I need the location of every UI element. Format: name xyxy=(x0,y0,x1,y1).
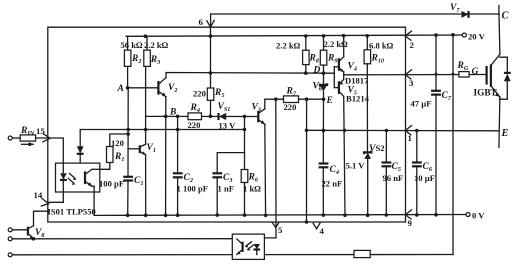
svg-text:E: E xyxy=(326,96,333,106)
pin 5 arrow xyxy=(272,222,279,227)
wire LED cathode to pin14 xyxy=(48,201,64,203)
junction V8 emitter xyxy=(32,237,36,241)
svg-text:1 100 pF: 1 100 pF xyxy=(177,184,209,194)
wire C3 R6 tap xyxy=(217,116,244,173)
junction C5 top xyxy=(385,129,389,133)
capacitor C7 xyxy=(431,35,441,215)
transistor V8 xyxy=(28,226,34,239)
junction C2 top on B line xyxy=(176,115,180,119)
wire L2 top edge of block xyxy=(48,27,406,222)
svg-text:2.2 kΩ: 2.2 kΩ xyxy=(144,40,169,50)
resistor R4 xyxy=(188,113,202,120)
junction aux rail pin3 xyxy=(452,73,455,76)
current arrow under RIN xyxy=(22,142,35,146)
wire V4 collector to 20V rail xyxy=(343,36,345,57)
wire A rail below C1 xyxy=(127,181,129,215)
svg-text:13 V: 13 V xyxy=(219,120,237,130)
junction R10 top xyxy=(366,34,370,38)
svg-text:1: 1 xyxy=(408,133,412,143)
terminal 0 V xyxy=(466,211,485,221)
wire B line from R3 to V3 base xyxy=(146,115,258,117)
junction C4 on 0V bus xyxy=(322,213,326,217)
optocoupler light arrows xyxy=(68,174,76,185)
junction C7 on 0V bus xyxy=(434,213,438,217)
svg-text:120: 120 xyxy=(111,138,124,148)
wire base tap for V4 V5 xyxy=(334,67,338,88)
junction V1 rail on y129 line xyxy=(144,128,148,132)
wire 0V bus xyxy=(94,214,466,217)
svg-text:10 µF: 10 µF xyxy=(414,173,435,183)
junction C3 on 0V bus xyxy=(215,213,219,217)
input terminal circle xyxy=(8,136,12,140)
feedback optocoupler box xyxy=(232,234,264,259)
transistor V1 xyxy=(140,144,146,155)
capacitor C3 xyxy=(212,173,222,215)
wire V1 collector up xyxy=(145,116,147,144)
wire A rail down xyxy=(127,88,129,176)
pin 15 arrow xyxy=(43,134,50,142)
optocoupler phototransistor xyxy=(85,169,100,215)
resistor RIN xyxy=(20,135,35,141)
svg-text:C: C xyxy=(502,11,510,22)
feedback LED xyxy=(254,244,261,255)
wire line2 xyxy=(12,238,236,240)
svg-text:220: 220 xyxy=(193,89,206,99)
pin 1 arrow xyxy=(405,126,411,135)
capacitor C5 xyxy=(382,131,392,216)
svg-text:IGBT: IGBT xyxy=(474,89,498,99)
junction C2 on 0V bus xyxy=(176,213,180,217)
resistor R1 xyxy=(107,134,129,163)
pin 3 arrow xyxy=(405,70,411,79)
zener VS2 xyxy=(364,151,371,216)
junction C6 on 0V bus xyxy=(415,213,419,217)
wire input xyxy=(12,137,20,139)
wire V2 emitter down to 0V bus xyxy=(165,97,167,216)
wire 20V rail L3 xyxy=(126,35,464,36)
junction aux rail top xyxy=(451,33,455,37)
junction R8 bottom on bus xyxy=(304,71,308,75)
junction C2 rail on y129 line xyxy=(176,128,180,132)
wire V3 collector up to E line xyxy=(265,99,325,109)
feedback light arrows xyxy=(245,242,254,251)
wire emitters junction xyxy=(343,72,345,79)
svg-text:D: D xyxy=(313,66,321,76)
junction E rail tap xyxy=(274,97,278,101)
svg-text:47 µF: 47 µF xyxy=(411,99,432,109)
pin 4 arrow xyxy=(313,223,320,229)
wire V3 emitter down to 0V bus xyxy=(264,124,267,215)
svg-text:14: 14 xyxy=(34,190,43,200)
terminal circle1 xyxy=(8,228,12,232)
junction C1 on 0V bus xyxy=(126,214,130,218)
terminal circle3 xyxy=(8,253,12,257)
wire IGBT collector up xyxy=(498,14,501,54)
junction C4 rail on pin1 line xyxy=(322,129,326,133)
junction A rail on y129 line xyxy=(126,128,130,132)
capacitor C1 xyxy=(123,177,133,181)
junction V4 collector top xyxy=(342,34,346,38)
svg-text:220: 220 xyxy=(284,102,297,112)
svg-text:S2: S2 xyxy=(376,143,385,153)
svg-text:3: 3 xyxy=(409,78,414,88)
junction R1 top on A rail xyxy=(126,132,130,136)
wire aux 20V rail right xyxy=(452,35,454,255)
resistor R2 xyxy=(124,36,130,88)
wire line at y129 from diode corner to C3 tap xyxy=(80,129,244,131)
junction R9 top xyxy=(322,34,326,38)
pin 2 arrow xyxy=(405,31,411,40)
wire V5 collector down to 0V bus xyxy=(344,96,345,215)
wire pin1 line horizontal xyxy=(307,129,499,132)
svg-text:96 nF: 96 nF xyxy=(383,173,404,183)
wire line3 xyxy=(12,254,453,256)
svg-text:1 kΩ: 1 kΩ xyxy=(243,184,261,194)
pin 14 arrow xyxy=(41,199,48,207)
junction V2 emitter on 0V bus xyxy=(164,214,168,218)
wire pin6 rail xyxy=(210,27,212,88)
svg-text:6: 6 xyxy=(199,17,204,27)
junction R8 top xyxy=(304,34,308,38)
wire V2 collector to bus xyxy=(166,73,334,78)
capacitor C6 xyxy=(412,131,422,215)
wire V1 base xyxy=(128,148,140,150)
protection diode above optocoupler xyxy=(77,130,84,164)
junction VS2 on 0V bus xyxy=(366,213,370,217)
svg-text:220: 220 xyxy=(188,120,201,130)
feedback phototransistor xyxy=(237,239,243,255)
wire V1 emitter down xyxy=(145,155,147,216)
junction pin1 rail tap xyxy=(305,97,309,101)
svg-text:E: E xyxy=(501,128,509,139)
junction pin6 rail on L3 xyxy=(209,34,213,38)
wire phototransistor collector to R1 xyxy=(100,163,110,170)
junction C6 top xyxy=(415,129,419,133)
junction y129 line end at C3 tap xyxy=(243,128,247,132)
capacitor C4 xyxy=(319,99,329,215)
svg-text:B: B xyxy=(169,108,176,118)
terminal circle2 xyxy=(8,237,12,241)
optocoupler LED xyxy=(60,163,67,202)
wire IGBT emitter down xyxy=(499,97,500,147)
wire pin3 line from emitters to gate xyxy=(344,74,487,76)
junction C7 pin3 xyxy=(435,73,438,76)
junction C7 top xyxy=(434,33,438,37)
junction pin6 rail on V2 bus xyxy=(209,71,213,75)
svg-text:9: 9 xyxy=(408,218,413,228)
junction R3 top xyxy=(144,34,148,38)
junction R5 bottom on B line xyxy=(209,115,213,119)
wire to V8 base xyxy=(12,229,27,231)
svg-text:4: 4 xyxy=(320,226,325,236)
wire V8 collector to pin14 xyxy=(34,211,48,226)
svg-text:2: 2 xyxy=(410,40,415,50)
capacitor C2 xyxy=(173,116,183,215)
junction R6 on 0V bus xyxy=(243,213,247,217)
svg-text:1 nF: 1 nF xyxy=(218,184,234,194)
pin 6 arrow xyxy=(207,20,214,27)
node D junction xyxy=(322,71,326,75)
wire E sense rail to feedback xyxy=(257,99,276,244)
IGBT xyxy=(487,54,500,97)
wire A to V2 base xyxy=(128,87,158,89)
pin 9 arrow xyxy=(405,210,411,219)
resistor RG xyxy=(459,72,469,77)
diode V7 on top rail xyxy=(462,11,469,18)
svg-text:2.2 kΩ: 2.2 kΩ xyxy=(276,40,301,50)
optocoupler IS01 box xyxy=(56,163,100,192)
resistor R9 xyxy=(320,36,327,73)
svg-text:100 pF: 100 pF xyxy=(99,179,124,189)
zener VS1 xyxy=(219,113,227,120)
svg-text:IS01 TLP550: IS01 TLP550 xyxy=(48,207,96,217)
junction tap on B line xyxy=(243,115,247,119)
wire top rail L1 from pin6 to collector line xyxy=(211,14,499,27)
junction V1 emitter on 0V bus xyxy=(144,214,148,218)
junction V5 collector on pin1 line xyxy=(343,129,347,133)
svg-text:22 nF: 22 nF xyxy=(322,179,343,189)
svg-text:5: 5 xyxy=(278,225,283,235)
resistor on line3 xyxy=(354,250,370,257)
resistor R3 xyxy=(144,36,151,116)
svg-text:D1817: D1817 xyxy=(345,76,369,86)
freewheel diode xyxy=(500,57,511,99)
resistor R10 xyxy=(364,36,371,153)
transistor V4 xyxy=(339,57,344,72)
resistor R5 xyxy=(207,88,214,116)
junction C5 on 0V bus xyxy=(385,213,389,217)
terminal C stub xyxy=(498,6,500,15)
svg-text:5.1 V: 5.1 V xyxy=(346,161,366,171)
transistor V5 xyxy=(339,79,344,96)
junction V3 emitter on 0V bus xyxy=(264,214,268,218)
wire RIN to optocoupler xyxy=(36,138,64,163)
svg-text:56 kΩ: 56 kΩ xyxy=(121,40,144,50)
svg-text:6.8 kΩ: 6.8 kΩ xyxy=(369,40,394,50)
node A xyxy=(126,86,130,90)
svg-text:20 V: 20 V xyxy=(468,32,486,42)
junction V5 collector on 0V bus xyxy=(343,213,347,217)
junction on bus2 xyxy=(305,220,309,224)
junction pin1 rail bend xyxy=(305,129,309,133)
node E junction xyxy=(322,97,326,101)
svg-text:2.2 kΩ: 2.2 kΩ xyxy=(324,39,349,49)
junction V2 emitter on B line xyxy=(164,115,168,119)
zener V6 xyxy=(320,73,327,99)
svg-text:0 V: 0 V xyxy=(472,211,485,221)
resistor R6 xyxy=(241,153,248,216)
svg-text:G: G xyxy=(472,67,479,77)
terminal 20 V xyxy=(462,32,485,42)
resistor R7 xyxy=(284,96,299,103)
transistor V2 xyxy=(158,78,166,97)
transistor V3 xyxy=(258,109,265,125)
svg-text:B1214: B1214 xyxy=(346,94,370,104)
resistor R8 xyxy=(303,36,310,73)
wire pin1 sense line xyxy=(306,99,308,222)
svg-text:A: A xyxy=(117,84,124,94)
